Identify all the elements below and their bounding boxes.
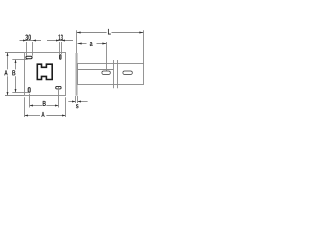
dimension B (left, slot to slot) [12,60,28,93]
slot bottom-left (vertical oval) [28,88,30,93]
break line 1 [113,60,115,88]
slot bottom-right (horizontal oval) [56,86,61,89]
rail inner edge line [78,69,114,71]
plate outline [25,53,66,96]
slot top-right (vertical oval) [60,55,61,60]
dimension B (bottom, slot centres) [30,87,59,108]
label B (bottom) [43,101,46,106]
dimension A (left, plate height) [5,53,24,96]
dimension 30 (top-left slot length) [20,41,42,56]
dimension s (flange thickness) [68,96,87,103]
flange plate (seen edge-on) [76,53,78,96]
label L [108,29,111,35]
rail slot 2 [123,71,132,75]
value label 30 [25,34,31,40]
central profile cutout (square hole with keyways top and bottom) [37,64,52,79]
slot top-left (horizontal oval) [26,56,32,58]
dimension a (flange to first slot) [78,42,107,71]
label s [76,104,79,108]
label B (left) [12,70,15,75]
dimension L (rail length) [77,30,144,63]
dimension 13 (top-right slot width) [47,41,73,55]
label A (bottom) [41,112,44,117]
cantilever rail [78,64,144,85]
value label 13 [58,34,62,40]
label a [90,42,93,46]
break line 2 [117,60,119,88]
rail slot 1 [102,71,110,75]
label A (left) [4,70,7,75]
dimension A (bottom, plate width) [25,97,66,117]
